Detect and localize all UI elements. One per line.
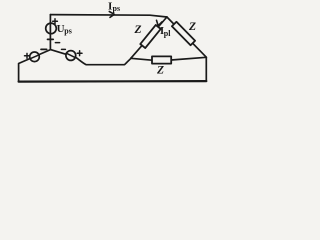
svg-text:Z: Z [134, 24, 142, 36]
svg-text:pl: pl [164, 29, 171, 38]
svg-text:ps: ps [64, 27, 72, 36]
svg-text:Z: Z [156, 65, 164, 77]
svg-text:Z: Z [188, 21, 196, 33]
svg-text:ps: ps [113, 4, 121, 13]
